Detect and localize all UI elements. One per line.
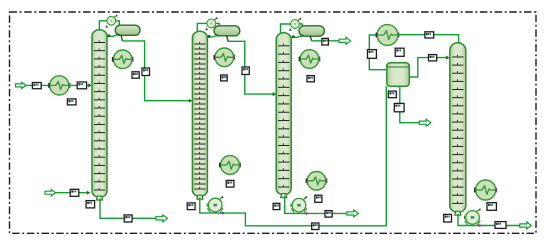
wire F1 vapor return to B4 — [409, 58, 447, 77]
stream label box I — [242, 67, 249, 75]
stream label box V — [394, 103, 404, 111]
heat exchanger E1 feed heater — [49, 76, 70, 95]
stream label box P — [312, 223, 319, 230]
stream label box R — [395, 48, 404, 56]
stream label box D — [132, 72, 139, 78]
arrowhead into B4 top — [457, 42, 461, 45]
stream label box S — [425, 32, 434, 38]
node reflux junction B3 — [292, 35, 295, 38]
distillation column B4 — [450, 43, 466, 215]
node reflux junction B1 — [107, 34, 110, 37]
stream label box J — [187, 203, 195, 210]
heat exchanger E2 condenser — [113, 50, 133, 69]
feed arrowhead into B3 feed — [273, 92, 276, 96]
stream label box B — [77, 82, 86, 89]
reflux drum D1 — [115, 25, 140, 36]
wire feed2 to column B1 — [56, 192, 88, 194]
stream label box T — [429, 55, 437, 61]
wire reflux D3 to B3 — [292, 36, 302, 38]
wire distillate D1 to column B2 — [122, 41, 189, 101]
distillation column B2 — [192, 31, 207, 199]
node magenta mark P3 — [222, 212, 225, 215]
distillate D2 elbow — [227, 36, 229, 42]
stream label box M — [322, 38, 329, 45]
feed arrowhead into B2 feed — [189, 99, 192, 103]
distillation column B1 — [92, 30, 107, 200]
stream terminal arrow B1 bottoms outlet — [156, 215, 168, 222]
heat exchanger E8 exchanger — [475, 180, 497, 200]
wire B4 bottoms product — [458, 214, 520, 226]
stream label box H — [221, 75, 228, 81]
stream label box L — [307, 76, 314, 82]
node reflux junction B2 — [208, 35, 211, 38]
wire distillate D3 product — [312, 40, 340, 42]
stream terminal arrow FEED2 inlet — [45, 190, 56, 196]
feed arrowhead into B1 lower feed — [87, 191, 90, 195]
distillate D1 elbow — [121, 35, 122, 41]
wire feed to heater E1 — [26, 84, 50, 86]
stream terminal arrow B3 distillate outlet — [339, 37, 351, 44]
wire exchanger E7 to flash drum F1 — [369, 35, 386, 70]
stream label box feed2 — [70, 189, 79, 196]
stream label box X — [495, 222, 506, 229]
wire heater E1 to column B1 — [69, 84, 90, 86]
stream label box F — [86, 201, 95, 208]
wire B1 bottoms product — [100, 199, 157, 219]
pump P3 — [207, 196, 223, 213]
reflux drum D2 — [214, 26, 240, 37]
stream terminal arrow FEED inlet — [16, 82, 27, 88]
stream label box A — [32, 83, 41, 89]
wire B3 bottoms product — [285, 196, 347, 214]
feed arrowhead into B1 upper feed — [88, 83, 91, 87]
stream label box Y — [487, 203, 496, 211]
distillation column B3 — [276, 33, 291, 198]
wire reflux D2 to B2 — [208, 35, 218, 37]
stream label box O — [325, 211, 332, 218]
reflux drum D3 — [299, 26, 324, 37]
heat exchanger E4 exchanger — [220, 156, 240, 175]
stream terminal arrow B3 bottoms outlet — [347, 210, 359, 217]
stream label box G — [124, 215, 132, 222]
wire distillate D2 to column B3 — [228, 41, 274, 94]
heat exchanger E3 condenser — [214, 48, 234, 67]
stream terminal arrow B4 bottoms outlet — [520, 222, 532, 229]
stream terminal arrow F1 liquid outlet — [419, 119, 431, 126]
wire B3 vapor line to pump P4 — [281, 24, 291, 34]
stream label box Z — [226, 180, 234, 187]
heat exchanger E5 condenser — [299, 50, 319, 69]
stream label box W — [444, 214, 452, 222]
node magenta mark P5 — [305, 212, 308, 215]
wire reflux D1 to B1 — [108, 35, 118, 37]
wire E7 to column B4 top — [398, 35, 459, 43]
stream label box K — [273, 203, 280, 209]
wire B1 vapor line to pump P1 — [99, 21, 107, 31]
stream label box N — [315, 195, 322, 202]
stream label box C — [67, 99, 76, 105]
wire pump P1 to drum D1 — [116, 21, 120, 26]
wire B2 bottoms long recycle — [200, 86, 386, 226]
node magenta mark P6 — [478, 224, 481, 227]
wire B2 vapor line to pump P2 — [197, 23, 207, 32]
heat exchanger E7 condenser — [376, 25, 398, 46]
heat exchanger E6 exchanger — [306, 172, 326, 191]
pump P1 — [105, 14, 118, 28]
stream label box Q — [368, 50, 377, 59]
stream label box U — [388, 91, 396, 98]
stream label box E — [142, 68, 150, 76]
pump P4 — [289, 17, 302, 31]
distillate D3 elbow — [310, 36, 312, 41]
pump P6 — [465, 208, 481, 225]
wire pump P4 to drum D3 — [299, 24, 302, 26]
pump P2 — [205, 17, 218, 31]
pump P5 — [291, 196, 307, 213]
wire F1 liquid product — [400, 86, 420, 122]
wire pump P2 to drum D2 — [216, 23, 220, 26]
feed arrowhead into B4 side feed — [446, 56, 449, 60]
flash drum F1 — [387, 63, 410, 87]
